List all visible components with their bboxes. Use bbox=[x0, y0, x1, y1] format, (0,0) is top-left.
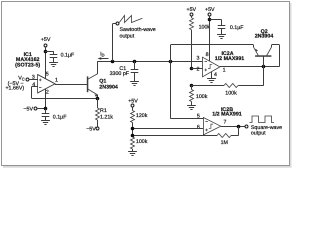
svg-text:R1: R1 bbox=[100, 108, 107, 114]
svg-text:Sawtooth-wave: Sawtooth-wave bbox=[120, 27, 156, 33]
svg-text:4: 4 bbox=[214, 72, 217, 78]
svg-text:+: + bbox=[39, 77, 42, 82]
svg-text:8: 8 bbox=[206, 52, 209, 58]
svg-text:100k: 100k bbox=[225, 91, 237, 97]
svg-text:+: + bbox=[204, 68, 207, 73]
svg-text:1: 1 bbox=[223, 68, 226, 74]
svg-text:1/2 MAX991: 1/2 MAX991 bbox=[215, 56, 244, 62]
svg-text:2: 2 bbox=[197, 67, 200, 73]
svg-text:6: 6 bbox=[197, 124, 200, 130]
svg-text:output: output bbox=[251, 130, 266, 136]
svg-text:0.1µF: 0.1µF bbox=[230, 25, 244, 31]
svg-text:−: − bbox=[39, 85, 42, 90]
svg-text:0.1µF: 0.1µF bbox=[53, 114, 67, 120]
svg-text:+1.66V): +1.66V) bbox=[5, 85, 24, 91]
svg-text:0.1µF: 0.1µF bbox=[61, 53, 75, 59]
svg-text:2N3904: 2N3904 bbox=[255, 34, 274, 40]
svg-text:100k: 100k bbox=[196, 94, 208, 100]
svg-text:1M: 1M bbox=[221, 140, 228, 146]
svg-text:+5V: +5V bbox=[41, 37, 51, 43]
svg-text:3300 pF: 3300 pF bbox=[110, 71, 130, 77]
svg-text:−5V: −5V bbox=[86, 126, 96, 132]
svg-text:5: 5 bbox=[46, 71, 49, 77]
svg-text:+: + bbox=[205, 127, 208, 132]
svg-text:(SOT23-5): (SOT23-5) bbox=[15, 63, 40, 69]
svg-text:−: − bbox=[204, 59, 207, 64]
svg-text:1/2 MAX991: 1/2 MAX991 bbox=[212, 112, 241, 118]
svg-text:7: 7 bbox=[224, 120, 227, 126]
svg-text:3: 3 bbox=[32, 74, 35, 80]
svg-text:100k: 100k bbox=[199, 24, 211, 30]
svg-text:ID: ID bbox=[100, 52, 104, 58]
svg-text:4: 4 bbox=[32, 82, 35, 88]
svg-text:120k: 120k bbox=[136, 113, 148, 119]
svg-text:output: output bbox=[120, 33, 135, 39]
svg-text:+5V: +5V bbox=[187, 7, 197, 13]
svg-text:+5V: +5V bbox=[128, 98, 138, 104]
svg-text:100k: 100k bbox=[136, 139, 148, 145]
svg-text:5: 5 bbox=[197, 114, 200, 120]
svg-text:3: 3 bbox=[197, 56, 200, 62]
svg-text:−: − bbox=[205, 119, 208, 124]
svg-text:+5V: +5V bbox=[205, 7, 215, 13]
svg-text:1.21k: 1.21k bbox=[100, 114, 113, 120]
svg-text:1: 1 bbox=[55, 78, 58, 84]
svg-text:2N3904: 2N3904 bbox=[99, 84, 118, 90]
svg-text:−5V: −5V bbox=[23, 106, 33, 112]
svg-text:2: 2 bbox=[46, 89, 49, 95]
